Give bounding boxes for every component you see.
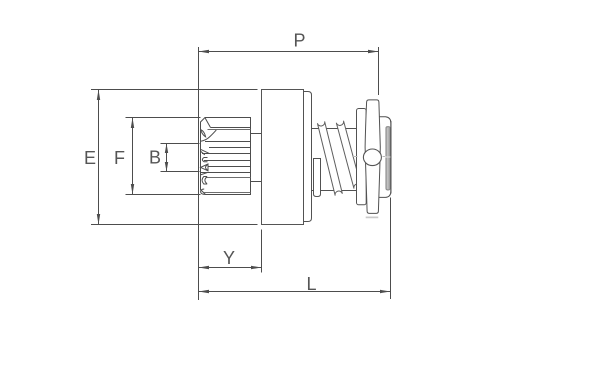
step ring [304,92,312,222]
wire: main left extension line [198,47,200,300]
svg-text:B: B [149,148,161,168]
gear hub lines [251,134,262,182]
gear chamfer details [201,118,217,195]
dimension E [91,90,258,225]
pinion gear outline [201,118,251,195]
svg-text:F: F [114,148,125,168]
pivot ball [363,149,381,166]
collar [357,109,367,205]
dimension Y [199,230,262,273]
dimension B [161,144,200,172]
body (clutch housing) [262,90,304,225]
spring coil 2 [336,121,361,189]
lever (fork) [365,100,380,213]
sleeve (spring shaft) [312,129,357,191]
dimension P [199,47,379,95]
end cap ribbed band [386,127,390,190]
dimension F [126,118,201,195]
end cap [377,117,391,198]
lever bottom shadow [366,216,379,218]
end cap right edge [390,121,392,194]
svg-text:P: P [293,31,305,51]
svg-text:Y: Y [223,248,235,268]
centerline ticks [353,156,385,158]
tab (drive dog) [314,159,321,197]
svg-text:E: E [84,148,96,168]
gear teeth lines [201,128,251,193]
dimension L [199,198,391,300]
end cap band highlight [387,128,389,189]
spring coil 1 [317,121,342,195]
svg-text:L: L [306,274,316,294]
